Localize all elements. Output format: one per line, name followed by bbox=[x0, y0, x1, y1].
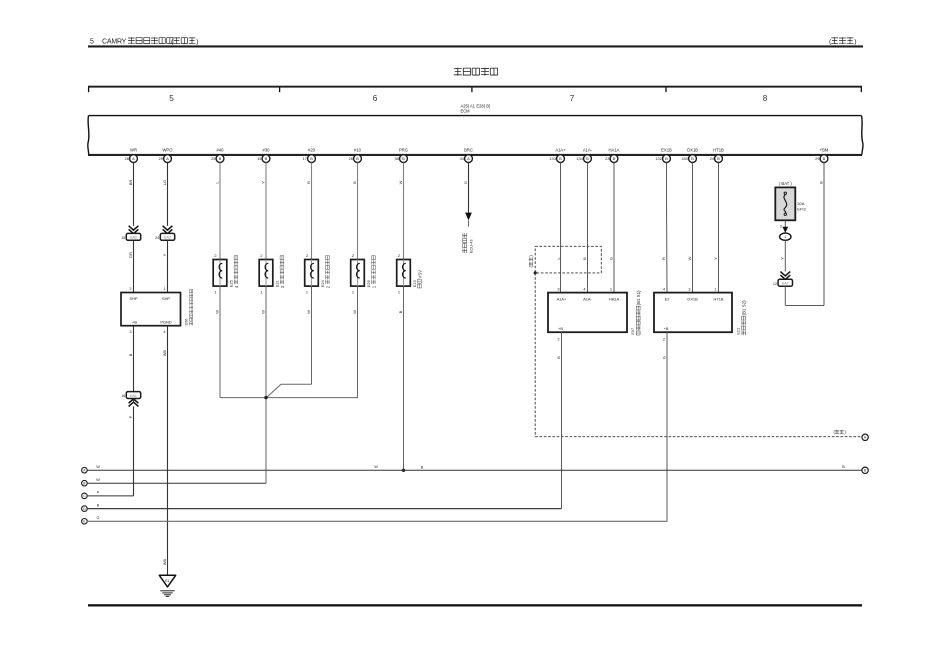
svg-text:2: 2 bbox=[398, 253, 400, 258]
svg-text:(B1 S2): (B1 S2) bbox=[741, 300, 746, 315]
svg-text:15: 15 bbox=[121, 236, 125, 240]
svg-text:B: B bbox=[717, 156, 720, 161]
svg-text:PGND: PGND bbox=[160, 320, 171, 325]
svg-text:HA1A: HA1A bbox=[609, 296, 620, 301]
svg-text:23: 23 bbox=[605, 156, 609, 161]
svg-text:16: 16 bbox=[121, 394, 125, 398]
svg-text:OX1B: OX1B bbox=[687, 296, 698, 301]
svg-text:SHP: SHP bbox=[130, 296, 138, 301]
svg-text:58: 58 bbox=[395, 156, 399, 161]
svg-text:W: W bbox=[306, 310, 311, 314]
svg-text:A1A-: A1A- bbox=[583, 296, 592, 301]
svg-text:A: A bbox=[467, 156, 470, 161]
svg-text:1: 1 bbox=[214, 290, 216, 295]
svg-text:B: B bbox=[398, 310, 403, 313]
svg-text:PRG: PRG bbox=[399, 148, 408, 153]
svg-text:30A: 30A bbox=[797, 201, 804, 206]
svg-text:29: 29 bbox=[815, 156, 819, 161]
svg-text:+B: +B bbox=[664, 326, 669, 331]
svg-text:WPO: WPO bbox=[162, 148, 173, 153]
svg-text:W: W bbox=[260, 310, 265, 314]
svg-text:15: 15 bbox=[257, 156, 261, 161]
svg-text:2: 2 bbox=[214, 253, 216, 258]
svg-text:3: 3 bbox=[557, 286, 559, 291]
svg-text:+B: +B bbox=[558, 326, 563, 331]
svg-text:WB: WB bbox=[163, 558, 167, 565]
svg-text:A1A-: A1A- bbox=[583, 148, 593, 153]
svg-text:Y: Y bbox=[780, 257, 785, 260]
svg-text:W: W bbox=[374, 465, 378, 469]
svg-text:180: 180 bbox=[681, 156, 688, 161]
svg-text:G: G bbox=[97, 516, 100, 520]
svg-text:29: 29 bbox=[159, 156, 163, 161]
svg-text:B: B bbox=[556, 356, 561, 359]
svg-text:E07: E07 bbox=[630, 328, 635, 335]
svg-text:E19: E19 bbox=[413, 280, 417, 287]
svg-text:A: A bbox=[132, 156, 135, 161]
svg-text:E21: E21 bbox=[736, 328, 741, 335]
svg-text:B: B bbox=[421, 465, 424, 469]
svg-text:B: B bbox=[402, 156, 405, 161]
svg-text:Y: Y bbox=[162, 253, 167, 256]
svg-text:1: 1 bbox=[398, 290, 400, 295]
svg-text:B: B bbox=[613, 156, 616, 161]
svg-text:): ) bbox=[196, 39, 198, 46]
svg-text:P: P bbox=[128, 415, 133, 418]
svg-text:1: 1 bbox=[784, 235, 786, 239]
svg-text:1: 1 bbox=[260, 290, 262, 295]
svg-text:EA1: EA1 bbox=[130, 394, 137, 398]
svg-text:133: 133 bbox=[549, 156, 556, 161]
svg-text:#30: #30 bbox=[263, 148, 271, 153]
svg-text:1: 1 bbox=[163, 286, 165, 291]
svg-text:B: B bbox=[310, 156, 313, 161]
svg-text:1: 1 bbox=[352, 290, 354, 295]
svg-text:OX1B: OX1B bbox=[687, 148, 698, 153]
svg-text:132: 132 bbox=[655, 156, 662, 161]
svg-text:B: B bbox=[665, 156, 668, 161]
svg-text:26: 26 bbox=[349, 156, 353, 161]
svg-text:2: 2 bbox=[557, 337, 559, 342]
svg-text:1: 1 bbox=[306, 290, 308, 295]
svg-text:#40: #40 bbox=[217, 148, 225, 153]
svg-text:5: 5 bbox=[169, 94, 174, 103]
svg-text:W: W bbox=[352, 310, 357, 314]
svg-text:3: 3 bbox=[129, 329, 131, 334]
svg-text:2: 2 bbox=[129, 286, 131, 291]
svg-text:1: 1 bbox=[714, 286, 716, 291]
svg-text:A1A+: A1A+ bbox=[557, 296, 567, 301]
svg-text:B: B bbox=[842, 465, 845, 469]
svg-text:B: B bbox=[559, 156, 562, 161]
svg-text:B: B bbox=[818, 181, 823, 184]
svg-text:2: 2 bbox=[306, 253, 308, 258]
svg-text:EA2: EA2 bbox=[782, 282, 789, 286]
svg-text:A1A+: A1A+ bbox=[555, 148, 566, 153]
svg-text:W: W bbox=[214, 310, 219, 314]
svg-text:W: W bbox=[96, 465, 100, 469]
svg-text:BRC: BRC bbox=[464, 148, 473, 153]
svg-text:12: 12 bbox=[773, 282, 777, 286]
svg-text:5: 5 bbox=[90, 39, 94, 46]
svg-text:W: W bbox=[687, 256, 692, 260]
svg-text:HT1B: HT1B bbox=[714, 296, 724, 301]
svg-text:(B1 S1): (B1 S1) bbox=[636, 290, 641, 305]
svg-text:134: 134 bbox=[576, 156, 583, 161]
svg-text:+B: +B bbox=[132, 320, 137, 325]
svg-text:28: 28 bbox=[125, 156, 129, 161]
svg-text:EA2: EA2 bbox=[164, 236, 171, 240]
svg-text:2: 2 bbox=[260, 253, 262, 258]
svg-text:BR: BR bbox=[128, 180, 133, 186]
svg-text:ECU-43: ECU-43 bbox=[470, 239, 474, 253]
svg-text:A: A bbox=[166, 156, 169, 161]
svg-text:7: 7 bbox=[570, 94, 575, 103]
svg-text:WB: WB bbox=[163, 349, 167, 356]
svg-text:EA2: EA2 bbox=[130, 236, 137, 240]
svg-text:Y: Y bbox=[260, 181, 265, 184]
svg-text:B: B bbox=[128, 353, 133, 356]
svg-text:HA1A: HA1A bbox=[609, 148, 620, 153]
svg-text:W: W bbox=[398, 180, 403, 184]
svg-text:2: 2 bbox=[663, 337, 665, 342]
svg-text:2: 2 bbox=[780, 223, 782, 228]
svg-text:WR: WR bbox=[130, 148, 137, 153]
svg-text:W: W bbox=[96, 478, 100, 482]
svg-text:24: 24 bbox=[155, 236, 159, 240]
svg-text:R: R bbox=[306, 181, 311, 184]
svg-text:#10: #10 bbox=[354, 148, 362, 153]
svg-text:+BM: +BM bbox=[820, 148, 829, 153]
svg-text:25: 25 bbox=[211, 156, 215, 161]
svg-text:B: B bbox=[265, 156, 268, 161]
svg-text:G: G bbox=[661, 356, 666, 359]
svg-text:B: B bbox=[582, 257, 587, 260]
svg-text:1: 1 bbox=[610, 286, 612, 291]
svg-text:B: B bbox=[586, 156, 589, 161]
svg-text:ECM: ECM bbox=[461, 109, 471, 114]
svg-text:CAMRY: CAMRY bbox=[102, 39, 127, 46]
svg-text:B: B bbox=[352, 181, 357, 184]
svg-text:17: 17 bbox=[303, 156, 307, 161]
svg-text:GR: GR bbox=[128, 252, 133, 258]
svg-text:E1: E1 bbox=[165, 579, 169, 583]
svg-text:E06: E06 bbox=[183, 319, 188, 326]
svg-text:( BAT ): ( BAT ) bbox=[779, 181, 792, 186]
svg-text:VSV: VSV bbox=[417, 270, 422, 279]
svg-text:EFI3: EFI3 bbox=[797, 207, 806, 212]
svg-text:HT1B: HT1B bbox=[713, 148, 724, 153]
svg-text:): ) bbox=[854, 39, 856, 46]
svg-text:P: P bbox=[97, 491, 100, 495]
svg-text:B: B bbox=[823, 156, 826, 161]
svg-text:G: G bbox=[463, 181, 468, 184]
svg-text:R: R bbox=[661, 257, 666, 260]
svg-text:3: 3 bbox=[688, 286, 690, 291]
svg-text:8: 8 bbox=[763, 94, 768, 103]
svg-text:B: B bbox=[97, 503, 100, 507]
svg-text:B: B bbox=[219, 156, 222, 161]
svg-text:2: 2 bbox=[352, 253, 354, 258]
svg-text:EX1B: EX1B bbox=[661, 148, 672, 153]
svg-text:SHP: SHP bbox=[162, 296, 170, 301]
svg-text:#20: #20 bbox=[308, 148, 316, 153]
svg-text:E2: E2 bbox=[665, 296, 670, 301]
svg-text:B: B bbox=[356, 156, 359, 161]
svg-text:Y: Y bbox=[713, 257, 718, 260]
svg-text:A25( A), E28( B): A25( A), E28( B) bbox=[461, 103, 491, 108]
svg-text:G: G bbox=[608, 257, 613, 260]
svg-text:B: B bbox=[691, 156, 694, 161]
svg-text:6: 6 bbox=[373, 94, 378, 103]
svg-text:LG: LG bbox=[162, 180, 167, 185]
